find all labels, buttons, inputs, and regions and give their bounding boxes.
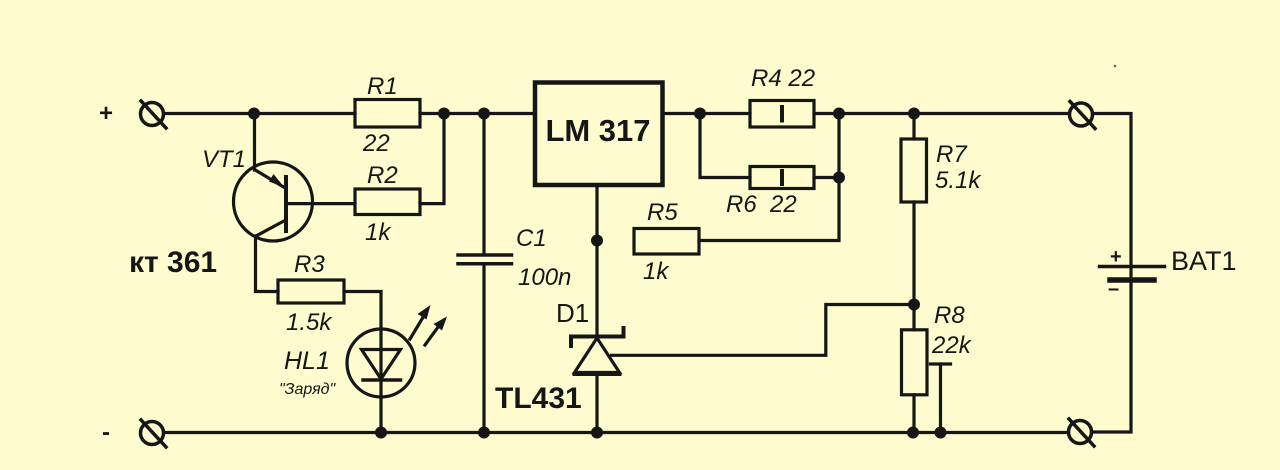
node junction R6 right (833, 172, 845, 184)
wire top main left (165, 112, 355, 115)
wire LM317 adj down (595, 185, 598, 336)
svg-text:кт 361: кт 361 (129, 246, 217, 279)
wire battery down (1093, 282, 1131, 432)
node junction C1 bottom (478, 427, 490, 439)
svg-text:1.5k: 1.5k (286, 309, 333, 336)
svg-text:5.1k: 5.1k (935, 167, 982, 194)
node speck artifact (1114, 65, 1117, 68)
svg-text:22: 22 (362, 130, 390, 157)
wire D1 ref to R7R8 node (612, 305, 915, 356)
node junction tap bottom (935, 427, 947, 439)
svg-text:-: - (102, 419, 110, 446)
wire R6 left branch (700, 114, 750, 178)
terminal X1 top-left (141, 101, 167, 128)
wire top main right (814, 112, 1069, 115)
wire collector to R3 (256, 236, 279, 292)
terminal X3 top-right (1070, 102, 1096, 129)
resistor R7 (901, 114, 982, 305)
node junction C1 top (478, 108, 490, 120)
node junction R4 right (833, 108, 845, 120)
svg-text:C1: C1 (516, 225, 547, 252)
node junction R5 left (591, 235, 603, 247)
svg-text:1k: 1k (643, 258, 670, 285)
svg-text:R8: R8 (934, 302, 965, 329)
node junction LED bottom (375, 427, 387, 439)
svg-text:HL1: HL1 (284, 347, 330, 375)
wire base to R2 (286, 202, 355, 205)
LED HL1 (279, 329, 415, 433)
wire R2 right up to node (420, 114, 444, 204)
battery BAT1 (1100, 246, 1237, 300)
svg-text:LM 317: LM 317 (545, 113, 650, 148)
terminal X4 bottom-right (1069, 419, 1095, 446)
svg-text:+: + (99, 100, 113, 127)
wire R6 right (814, 176, 839, 179)
svg-text:D1: D1 (556, 298, 589, 328)
svg-text:VT1: VT1 (202, 146, 246, 173)
resistor R5 (634, 199, 699, 285)
resistor R1 (355, 73, 420, 157)
regulator U1 LM317 (535, 83, 663, 186)
resistor R6 (726, 167, 814, 219)
node junction R2 top (438, 108, 450, 120)
resistor R2 (355, 162, 420, 246)
svg-text:TL431: TL431 (495, 382, 582, 415)
node junction D1 bottom (591, 427, 603, 439)
svg-text:R5: R5 (647, 199, 678, 226)
wire bottom main (165, 431, 1068, 434)
transistor VT1 (202, 146, 313, 241)
svg-text:BAT1: BAT1 (1171, 246, 1237, 276)
diode D1 TL431 (556, 298, 624, 433)
node junction R4R6 left (694, 108, 706, 120)
svg-text:R7: R7 (936, 141, 968, 168)
svg-text:R4 22: R4 22 (751, 65, 815, 92)
svg-text:1k: 1k (365, 219, 392, 246)
capacitor C1 (458, 114, 571, 433)
wire emitter drop (253, 114, 256, 171)
svg-text:R3: R3 (294, 251, 325, 278)
wire top-right corner (1093, 114, 1131, 266)
node junction A (248, 108, 260, 120)
svg-text:R1: R1 (367, 73, 398, 100)
svg-text:"Заряд": "Заряд" (279, 381, 337, 398)
svg-text:–: – (1108, 278, 1119, 300)
svg-text:100n: 100n (518, 264, 571, 291)
resistor R3 (278, 251, 344, 336)
LED arrows (410, 305, 447, 345)
terminal X2 bottom-left (141, 420, 167, 447)
node junction R7 top (908, 108, 920, 120)
svg-text:22k: 22k (931, 332, 973, 359)
svg-text:+: + (1110, 246, 1122, 268)
node junction R8 bottom (907, 427, 919, 439)
node junction R7R8 (908, 299, 920, 311)
svg-text:R2: R2 (367, 162, 398, 189)
wire LM317 right (663, 112, 751, 115)
wire R5 right to R6 right (699, 114, 839, 241)
wire R8 tap (931, 364, 951, 433)
resistor R4 (750, 65, 815, 127)
wire R1 right to LM317 (420, 112, 535, 115)
svg-text:R6 22: R6 22 (726, 191, 797, 218)
wire R3 right to LED (344, 292, 381, 330)
resistor R8 (902, 302, 973, 433)
